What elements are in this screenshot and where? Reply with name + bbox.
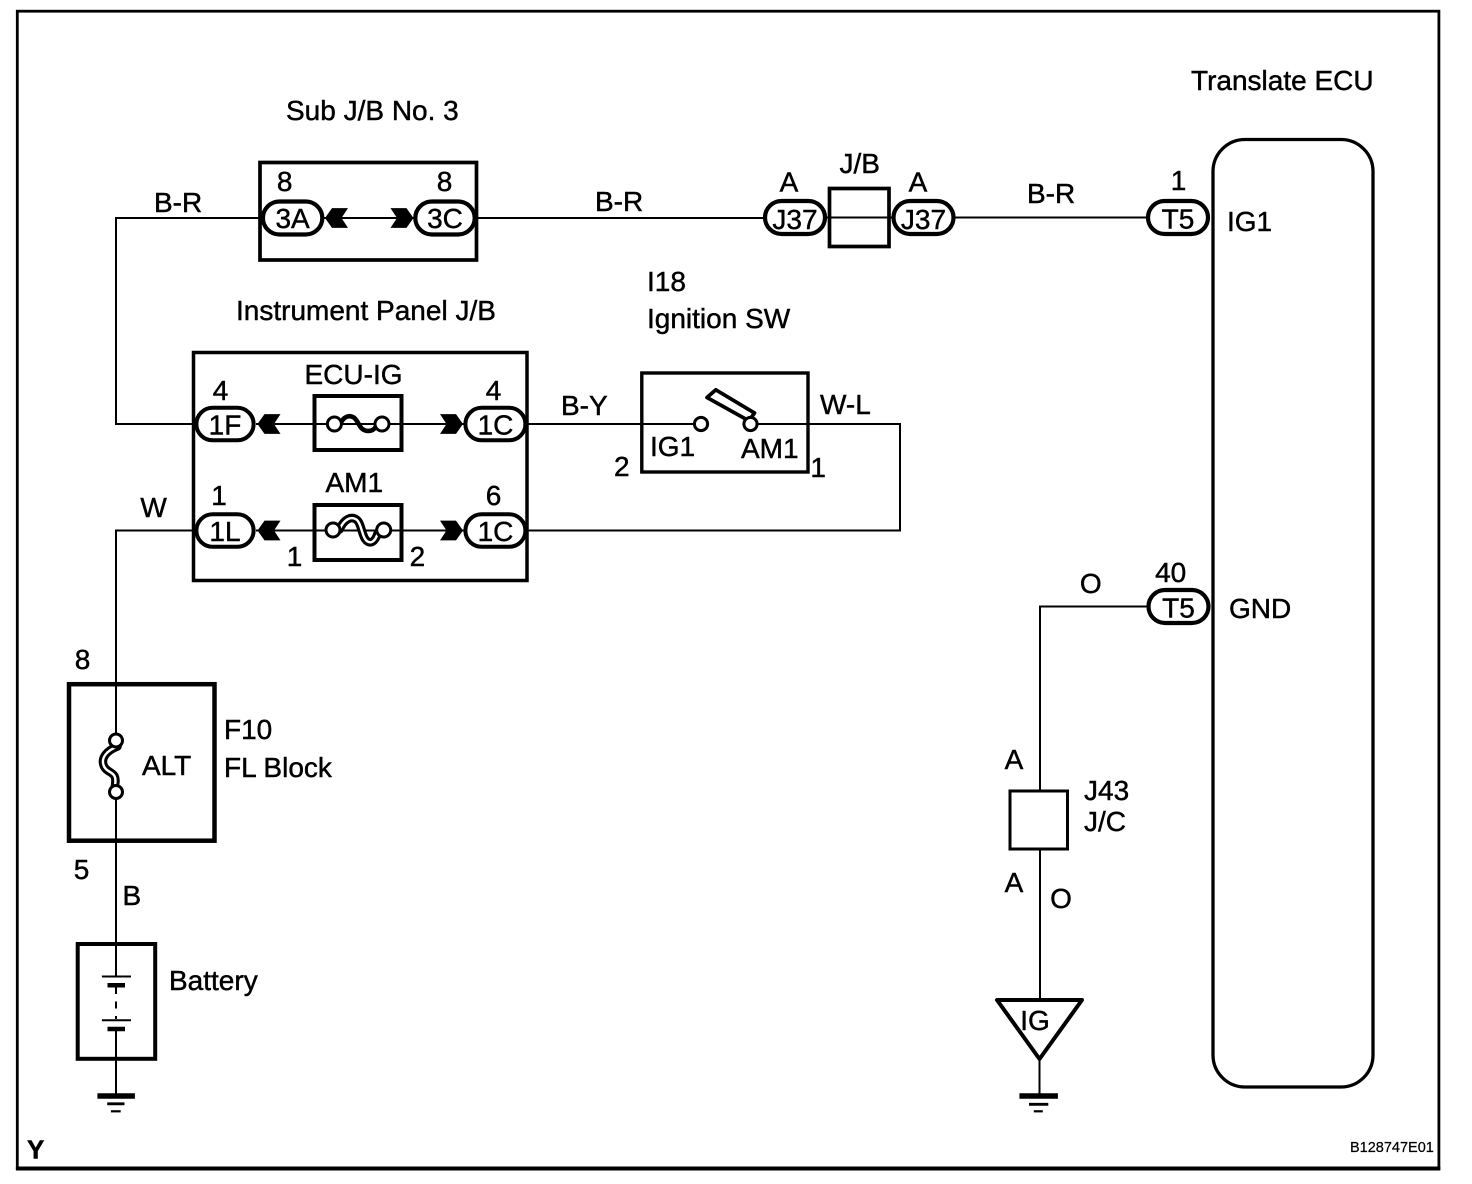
svg-text:A: A	[909, 167, 928, 198]
ignition switch contact AM1	[744, 417, 757, 430]
wire through J/B square	[826, 217, 893, 219]
F10 FL block box	[69, 684, 215, 841]
svg-text:2: 2	[410, 541, 426, 572]
svg-text:Instrument Panel J/B: Instrument Panel J/B	[236, 295, 496, 326]
arrow at 1C pin6	[440, 521, 463, 541]
svg-text:1C: 1C	[478, 410, 514, 441]
svg-text:B-R: B-R	[154, 187, 202, 218]
svg-text:J/C: J/C	[1084, 806, 1126, 837]
svg-text:W-L: W-L	[820, 389, 871, 420]
Translate ECU body	[1213, 140, 1373, 1088]
svg-text:8: 8	[75, 644, 91, 675]
battery plate 2	[108, 983, 126, 988]
svg-text:ALT: ALT	[142, 750, 191, 781]
arrow at 1C pin4	[440, 414, 463, 434]
arrow at 3A	[325, 208, 348, 228]
connector oval T5 pin1	[1148, 201, 1208, 235]
connector oval 1C pin6	[465, 514, 525, 547]
svg-text:I18: I18	[647, 266, 686, 297]
svg-text:3A: 3A	[275, 203, 310, 234]
fusible link AM1 terminal circles	[326, 523, 391, 537]
svg-text:A: A	[1005, 744, 1024, 775]
svg-text:IG: IG	[1020, 1005, 1050, 1036]
fusible link AM1 element	[340, 518, 379, 542]
svg-text:4: 4	[213, 375, 229, 406]
svg-text:B-R: B-R	[1027, 178, 1075, 209]
svg-text:J37: J37	[901, 204, 946, 235]
svg-text:Sub J/B No. 3: Sub J/B No. 3	[286, 95, 459, 126]
svg-text:8: 8	[277, 166, 293, 197]
connector oval T5 pin40	[1149, 590, 1209, 624]
svg-text:J/B: J/B	[840, 148, 880, 179]
wire row AM1: 1L to 1C through fuse	[256, 530, 465, 532]
svg-text:O: O	[1050, 883, 1072, 914]
svg-text:1F: 1F	[209, 410, 242, 441]
svg-text:GND: GND	[1229, 593, 1291, 624]
svg-text:AM1: AM1	[741, 433, 799, 464]
fuse ECU-IG box	[315, 396, 402, 450]
fusible link ALT terminal circles	[110, 734, 123, 799]
connector oval 3A	[263, 202, 322, 235]
wire from AM1 contact right, down, back to 1C pin6	[525, 424, 900, 531]
ground under IG triangle	[1019, 1096, 1058, 1111]
svg-text:Translate ECU: Translate ECU	[1191, 65, 1374, 96]
svg-text:B-R: B-R	[595, 186, 643, 217]
battery plate 1	[102, 976, 131, 978]
svg-text:W: W	[140, 492, 167, 523]
svg-text:1: 1	[287, 541, 303, 572]
svg-text:Battery: Battery	[169, 965, 258, 996]
fusible link AM1 box	[315, 505, 402, 560]
wire W from 1L left down to F10 block	[116, 531, 198, 737]
svg-text:T5: T5	[1162, 204, 1195, 235]
wire battery to ground	[115, 1031, 117, 1094]
wire from ALT link to battery	[115, 796, 117, 976]
IG triangle ground symbol	[997, 1000, 1082, 1059]
connector oval 1L	[196, 514, 253, 547]
svg-text:J43: J43	[1084, 775, 1129, 806]
svg-text:A: A	[1005, 867, 1024, 898]
wire J37 to T5	[954, 217, 1148, 219]
svg-text:J37: J37	[772, 204, 817, 235]
ignition switch contact IG1	[694, 417, 707, 430]
svg-text:B: B	[123, 880, 142, 911]
svg-text:A: A	[780, 167, 799, 198]
svg-text:ECU-IG: ECU-IG	[305, 359, 403, 390]
arrow at 3C	[391, 208, 414, 228]
wire 1C to ignition switch, through switch to AM1 contact	[525, 423, 696, 425]
wire 3C to J37	[475, 217, 764, 219]
J43 J/C box	[1010, 791, 1068, 849]
svg-text:1: 1	[211, 480, 227, 511]
svg-text:5: 5	[74, 854, 90, 885]
connector oval J37 left	[765, 201, 825, 235]
fusible link ALT element	[103, 747, 118, 786]
wire row ECU-IG: 1F to 1C through fuse	[256, 423, 465, 425]
connector oval 1F	[196, 408, 253, 441]
battery plate 3	[102, 1019, 131, 1021]
ground under battery	[97, 1096, 134, 1111]
Instrument Panel J/B box	[194, 353, 528, 581]
svg-text:1L: 1L	[209, 516, 240, 547]
svg-text:1: 1	[1171, 165, 1187, 196]
svg-text:1: 1	[810, 452, 826, 483]
svg-text:4: 4	[486, 375, 502, 406]
wire between 3A and 3C arrows	[324, 217, 414, 219]
svg-text:IG1: IG1	[650, 431, 695, 462]
connector oval J37 right	[894, 201, 954, 235]
svg-text:T5: T5	[1162, 593, 1195, 624]
ignition switch I18 box	[642, 373, 808, 472]
battery dashed separator	[115, 987, 117, 1019]
svg-text:O: O	[1080, 568, 1102, 599]
ignition switch lever	[707, 390, 755, 421]
wire J43 to IG triangle	[1039, 848, 1041, 1000]
svg-text:3C: 3C	[427, 203, 463, 234]
fuse ECU-IG element	[341, 416, 378, 431]
J/B box (square)	[830, 189, 890, 247]
svg-text:6: 6	[486, 480, 502, 511]
svg-text:Y: Y	[27, 1134, 44, 1164]
wire B-R from 3A left down to 1F	[116, 218, 262, 424]
Sub J/B No. 3 box	[260, 163, 477, 261]
arrow at 1F	[258, 414, 281, 434]
svg-text:1C: 1C	[478, 516, 514, 547]
fuse ECU-IG terminal circles	[327, 417, 389, 431]
wire O from T5 GND to J43	[1040, 607, 1148, 793]
svg-text:IG1: IG1	[1227, 206, 1272, 237]
svg-text:Ignition SW: Ignition SW	[647, 303, 791, 334]
svg-text:2: 2	[614, 451, 630, 482]
svg-text:FL Block: FL Block	[224, 752, 333, 783]
battery plate 4	[108, 1027, 126, 1032]
svg-text:40: 40	[1155, 557, 1186, 588]
arrow at 1L	[258, 521, 281, 541]
svg-text:8: 8	[437, 166, 453, 197]
wire IG triangle to ground	[1039, 1059, 1041, 1094]
svg-text:B128747E01: B128747E01	[1350, 1140, 1434, 1156]
battery box	[78, 944, 156, 1059]
svg-text:F10: F10	[224, 714, 272, 745]
svg-text:AM1: AM1	[326, 467, 384, 498]
svg-text:B-Y: B-Y	[561, 390, 608, 421]
connector oval 3C	[415, 202, 474, 235]
connector oval 1C pin4	[465, 408, 525, 441]
